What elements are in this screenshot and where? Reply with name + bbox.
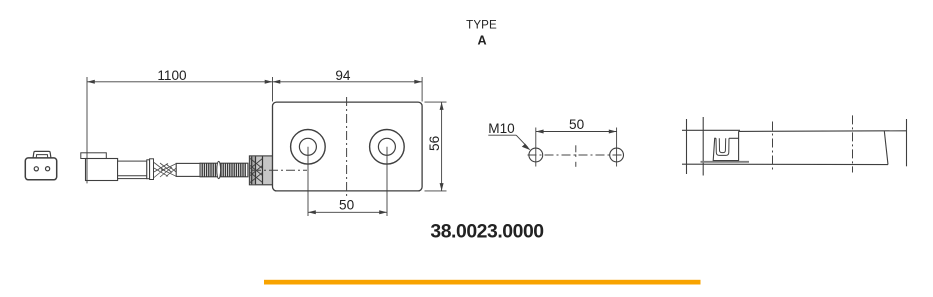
orange bar	[264, 280, 701, 285]
side view right stud line	[906, 119, 908, 166]
side view clip	[713, 131, 738, 160]
dimension 56	[425, 102, 447, 191]
mounting hole right	[370, 130, 405, 165]
svg-text:A: A	[477, 33, 486, 47]
dimension 50 hole pattern	[536, 117, 617, 134]
svg-text:TYPE: TYPE	[466, 19, 497, 32]
cable sleeve	[176, 163, 200, 176]
cable grommet	[249, 156, 272, 185]
M10 label and leader	[488, 121, 530, 150]
svg-text:94: 94	[335, 68, 351, 83]
dimension 94	[273, 68, 423, 102]
cable axis centerline	[252, 169, 307, 171]
corrugated tube	[200, 161, 248, 178]
svg-text:50: 50	[339, 198, 355, 213]
svg-text:50: 50	[569, 117, 585, 132]
dimension 1100	[87, 68, 273, 184]
side view body	[682, 130, 907, 164]
connector front view (2-pin plug)	[25, 151, 56, 179]
side view body left edge	[702, 117, 704, 176]
side view hole centerline 2	[852, 115, 854, 172]
svg-text:1100: 1100	[157, 68, 187, 83]
cable clamp	[147, 159, 154, 180]
dimension 50 block	[308, 198, 387, 215]
svg-text:56: 56	[427, 136, 442, 151]
sensor block front view	[273, 102, 423, 191]
side view left stud line	[686, 119, 688, 174]
hole extension lines for 50 dim	[307, 147, 309, 216]
hole centerlines vertical	[536, 128, 617, 167]
side view clip base	[701, 161, 750, 163]
connector side view body	[81, 153, 147, 181]
mounting hole left	[291, 130, 326, 165]
pattern horizontal centerline	[528, 154, 625, 156]
side view hole centerline 1	[772, 122, 774, 173]
svg-text:M10: M10	[488, 121, 515, 136]
M10 hole pattern: left hole	[529, 148, 543, 162]
block vertical centerline	[346, 97, 348, 197]
M10 hole pattern: right hole	[610, 148, 624, 162]
twisted wires	[154, 163, 176, 178]
pattern center cross	[575, 145, 577, 167]
svg-text:38.0023.0000: 38.0023.0000	[430, 220, 543, 242]
